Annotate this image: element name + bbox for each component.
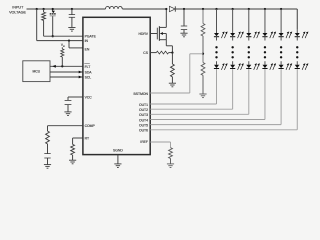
node LED string 5 anode bbox=[280, 8, 282, 10]
pin label OUT5 bbox=[139, 123, 148, 127]
wire LED string 3 anode bbox=[248, 9, 250, 33]
node LED string 2 anode bbox=[232, 8, 234, 10]
LED D1A bbox=[214, 32, 228, 39]
inductor L1 bbox=[106, 6, 123, 9]
svg-text:INPUT: INPUT bbox=[12, 6, 24, 10]
svg-text:OUT1: OUT1 bbox=[139, 103, 148, 107]
wire LED string 6 return bbox=[296, 69, 298, 130]
wire LED string 4 anode bbox=[264, 9, 266, 33]
wire LED string 5 anode bbox=[280, 9, 282, 33]
svg-text:MCU: MCU bbox=[33, 69, 41, 73]
svg-text:IO: IO bbox=[63, 46, 66, 48]
wire LED string 3 return bbox=[248, 69, 250, 114]
wire LED string 4 mid-a bbox=[264, 37, 266, 41]
ground IREF bbox=[167, 164, 174, 168]
pin label FLT bbox=[84, 64, 90, 69]
wire FLT bbox=[50, 65, 83, 68]
node LED string 4 anode bbox=[264, 8, 266, 10]
wire LED string 2 return bbox=[232, 69, 234, 109]
LED D6A bbox=[295, 32, 309, 39]
LED D4A bbox=[262, 32, 276, 39]
LED D4B bbox=[262, 63, 276, 70]
svg-text:HDRV: HDRV bbox=[138, 32, 148, 36]
ellipsis string 2 bbox=[231, 46, 233, 58]
pin label HDRV bbox=[138, 32, 148, 36]
pin label IN bbox=[85, 39, 89, 43]
wire IREF bbox=[150, 142, 170, 148]
resistor divider top bbox=[201, 9, 205, 54]
capacitor COMP bbox=[44, 144, 50, 165]
ground RT bbox=[69, 160, 76, 164]
node output cap junction bbox=[183, 8, 185, 10]
wire LED string 3 mid-a bbox=[248, 37, 250, 41]
pin label OUT6 bbox=[139, 129, 148, 133]
wire LED string 4 return bbox=[264, 69, 266, 119]
resistor COMP bbox=[46, 126, 50, 144]
LED D5B bbox=[279, 63, 293, 70]
LED D3A bbox=[246, 32, 260, 39]
svg-text:FLT: FLT bbox=[85, 65, 91, 69]
wire LED string 2 anode bbox=[232, 9, 234, 33]
pin label COMP bbox=[85, 124, 96, 128]
wire LED string 1 return bbox=[216, 69, 218, 104]
pin label SDA bbox=[85, 70, 93, 74]
pin label VCC bbox=[85, 95, 93, 99]
resistor VIN-PGATE bbox=[42, 9, 46, 36]
ground output cap bbox=[180, 33, 187, 37]
ground VCC cap bbox=[64, 112, 71, 116]
resistor FLT pull-up bbox=[61, 47, 64, 66]
pin label PGATE bbox=[85, 35, 97, 39]
wire LED string 2 mid-a bbox=[232, 37, 234, 41]
wire SDA bbox=[50, 71, 83, 74]
wire EN tie to IN bbox=[69, 41, 83, 48]
wire LED string 1 anode bbox=[216, 9, 218, 33]
resistor divider bottom bbox=[201, 54, 205, 94]
ellipsis string 1 bbox=[215, 46, 217, 58]
svg-text:COMP: COMP bbox=[85, 124, 96, 128]
ellipsis string 6 bbox=[296, 46, 298, 58]
LED D6B bbox=[295, 63, 309, 70]
pin label OUT3 bbox=[139, 113, 148, 117]
LED D1B bbox=[214, 63, 228, 70]
wire input rail bbox=[27, 8, 106, 10]
pin label EN bbox=[85, 48, 90, 52]
wire output rail bbox=[176, 8, 298, 10]
wire OUT1 bbox=[150, 103, 216, 105]
transistor Q1 NMOS bbox=[157, 26, 166, 41]
node IN/EN junction bbox=[68, 39, 70, 41]
wire OUT3 bbox=[150, 113, 249, 115]
pin label RT bbox=[85, 136, 89, 140]
ground input cap bbox=[68, 28, 75, 32]
pin label SGND bbox=[113, 148, 123, 152]
wire LED string 5 return bbox=[280, 69, 282, 125]
wire LED string 1 mid-b bbox=[216, 61, 218, 65]
svg-text:CS: CS bbox=[143, 51, 148, 55]
capacitor output bbox=[181, 9, 187, 33]
node switch node bbox=[165, 8, 167, 10]
wire HDRV gate bbox=[150, 33, 157, 35]
ground SGND bbox=[114, 164, 121, 168]
wire RT bbox=[73, 137, 83, 139]
resistor IREF bbox=[169, 148, 173, 164]
node VIN junction 1 bbox=[36, 8, 38, 10]
svg-text:SCL: SCL bbox=[85, 75, 92, 79]
wire PGATE bbox=[44, 35, 83, 37]
wire OUT5 bbox=[150, 124, 281, 126]
node PGATE junction bbox=[52, 35, 54, 37]
ground sense resistor bbox=[169, 83, 176, 87]
svg-text:OUT3: OUT3 bbox=[139, 113, 148, 117]
capacitor VCC bbox=[65, 97, 72, 112]
node CS junction bbox=[171, 51, 173, 53]
resistor RT bbox=[71, 138, 75, 160]
node divider mid bbox=[202, 53, 204, 55]
svg-text:EN: EN bbox=[85, 48, 90, 52]
svg-text:IREF: IREF bbox=[140, 140, 148, 144]
wire OUT4 bbox=[150, 119, 265, 121]
svg-text:OUT2: OUT2 bbox=[139, 108, 148, 112]
IC U1 LED driver bbox=[83, 17, 150, 154]
pin label OUT2 bbox=[139, 108, 148, 112]
svg-text:IN: IN bbox=[85, 39, 89, 43]
ellipsis string 4 bbox=[264, 46, 266, 58]
svg-text:OUT5: OUT5 bbox=[139, 123, 148, 127]
svg-text:VCC: VCC bbox=[85, 95, 93, 99]
wire LED string 4 mid-b bbox=[264, 61, 266, 65]
diode D1 boost bbox=[169, 6, 175, 11]
node divider top junction bbox=[202, 8, 204, 10]
wire LED string 5 mid-a bbox=[280, 37, 282, 41]
wire LED string 6 mid-b bbox=[296, 61, 298, 65]
node VIN junction 3 bbox=[52, 8, 54, 10]
LED D3B bbox=[246, 63, 260, 70]
pin label CS bbox=[143, 51, 148, 55]
wire COMP bbox=[48, 125, 83, 127]
wire LED string 5 mid-b bbox=[280, 61, 282, 65]
wire OUT2 bbox=[150, 108, 232, 110]
wire VIN to IN pin bbox=[37, 9, 83, 41]
svg-text:BSTMON: BSTMON bbox=[133, 92, 148, 96]
ground divider bbox=[199, 94, 206, 98]
svg-text:OUT4: OUT4 bbox=[139, 118, 148, 122]
wire rail to switch node bbox=[122, 8, 166, 10]
node VIN junction 2 bbox=[42, 8, 44, 10]
LED D5A bbox=[279, 32, 293, 39]
wire SCL bbox=[50, 76, 83, 79]
power label Vcc bbox=[61, 43, 66, 48]
wire output rail corner bbox=[296, 9, 298, 29]
pin label SCL bbox=[85, 75, 92, 79]
svg-text:SDA: SDA bbox=[85, 70, 93, 74]
ellipsis string 5 bbox=[280, 46, 282, 58]
resistor current sense bbox=[171, 53, 175, 84]
capacitor input bbox=[69, 9, 75, 28]
pin label OUT1 bbox=[139, 103, 148, 107]
wire LED string 1 mid-a bbox=[216, 37, 218, 41]
LED D2B bbox=[230, 63, 244, 70]
zener diode PGATE clamp bbox=[50, 9, 56, 36]
node LED string 1 anode bbox=[215, 8, 217, 10]
block MCU bbox=[23, 61, 50, 82]
node VIN junction 4 bbox=[71, 8, 73, 10]
pin label IREF bbox=[140, 140, 148, 144]
wire VCC bbox=[68, 96, 83, 98]
svg-text:OUT6: OUT6 bbox=[139, 129, 148, 133]
wire SGND bbox=[117, 155, 119, 164]
ellipsis string 3 bbox=[248, 46, 250, 58]
pin label OUT4 bbox=[139, 118, 148, 122]
node LED string 3 anode bbox=[248, 8, 250, 10]
ground COMP bbox=[44, 165, 51, 169]
svg-text:VOLTAGE: VOLTAGE bbox=[9, 11, 26, 15]
node FLT pull-up junction bbox=[61, 65, 63, 67]
net label INPUT VOLTAGE bbox=[9, 6, 26, 15]
wire LED string 6 anode bbox=[296, 29, 298, 33]
LED D2A bbox=[230, 32, 244, 39]
svg-text:SGND: SGND bbox=[113, 148, 123, 152]
wire Q1 source bbox=[166, 40, 172, 53]
wire drain to switch node bbox=[165, 9, 167, 27]
svg-text:RT: RT bbox=[85, 136, 89, 140]
wire LED string 2 mid-b bbox=[232, 61, 234, 65]
pin label BSTMON bbox=[133, 92, 148, 96]
wire OUT6 bbox=[150, 129, 297, 131]
resistor CS filter bbox=[150, 51, 172, 54]
wire LED string 3 mid-b bbox=[248, 61, 250, 65]
wire LED string 6 mid-a bbox=[296, 37, 298, 41]
wire BSTMON bbox=[150, 54, 203, 93]
svg-text:PGATE: PGATE bbox=[85, 35, 97, 39]
